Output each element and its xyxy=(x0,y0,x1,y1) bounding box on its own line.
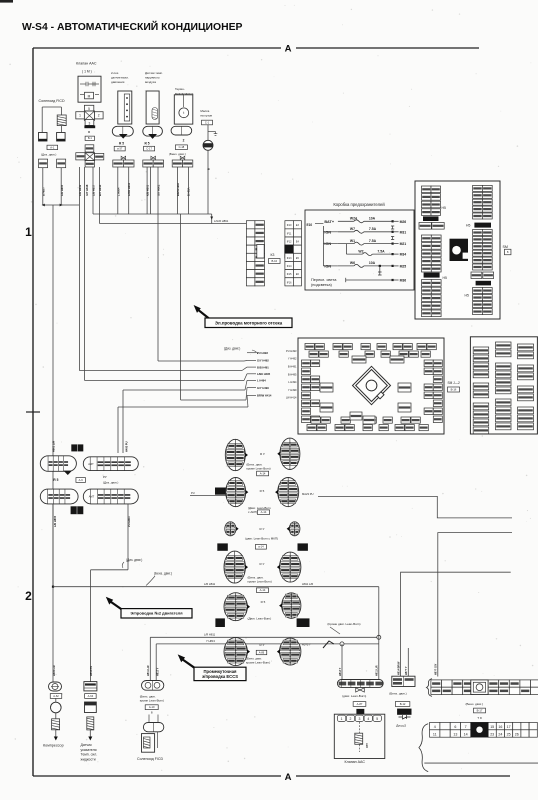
harness label engine no2 arrow xyxy=(106,597,113,605)
wire air temp down 1 xyxy=(146,167,148,214)
compressor clutch coil circle xyxy=(51,702,62,713)
wire air temp down 2 (long) xyxy=(157,167,159,361)
svg-text:R У: R У xyxy=(260,452,265,456)
connector ref A-14 row2 xyxy=(258,510,270,515)
connector cells FICD solenoid xyxy=(39,159,48,168)
svg-text:Н805 L/R: Н805 L/R xyxy=(53,665,56,676)
fuse light -> M36 xyxy=(346,279,393,281)
svg-text:Э/проводка №2 двигателя: Э/проводка №2 двигателя xyxy=(130,611,183,616)
wire H811 drop to AAC strip xyxy=(378,587,380,680)
coolant sensor connector xyxy=(84,682,97,691)
SM mounting hole xyxy=(450,239,469,261)
connector ref 8 (SM) xyxy=(504,249,511,255)
svg-text:Н493 PU: Н493 PU xyxy=(125,441,129,452)
wire vertical thermo short xyxy=(150,167,152,214)
svg-text:L/ВК Н495: L/ВК Н495 xyxy=(257,372,271,376)
svg-text:15: 15 xyxy=(490,725,494,729)
svg-text:С-18: С-18 xyxy=(179,145,185,149)
svg-text:(Диз. двиг.): (Диз. двиг.) xyxy=(103,480,118,484)
svg-text:Н5: Н5 xyxy=(442,206,446,210)
black ref labels below stadium 2 xyxy=(71,506,84,514)
svg-text:ОТУ: ОТУ xyxy=(366,743,369,748)
svg-text:IF16: IF16 xyxy=(287,281,292,284)
wire FICD drop 1 xyxy=(149,637,151,680)
wire jog PU to sensor xyxy=(91,569,128,571)
svg-text:G/Y Н492: G/Y Н492 xyxy=(257,359,269,363)
wire AAC pin1 down xyxy=(78,167,80,371)
svg-text:указателя: указателя xyxy=(81,748,97,752)
bottom right horizontal wire xyxy=(424,762,538,764)
pointer line for note xyxy=(330,627,340,634)
black ref box AAC xyxy=(356,709,364,714)
solenoid FICD left terminal box xyxy=(39,133,48,142)
svg-text:Коробка предохранителей: Коробка предохранителей xyxy=(333,202,385,207)
svg-text:1: 1 xyxy=(341,717,343,721)
connector ref B-12 xyxy=(395,702,410,707)
svg-text:Масса: Масса xyxy=(200,109,209,113)
SMJ-2 inner top cells xyxy=(352,356,366,363)
svg-text:В-17: В-17 xyxy=(477,708,483,712)
svg-text:В/В Н491: В/В Н491 xyxy=(257,365,269,369)
stadium connector row2 left xyxy=(40,489,78,504)
junction T at compressor wire xyxy=(52,586,54,588)
SMJ-2 inner cell LAV xyxy=(320,383,333,392)
connector ref A-1 xyxy=(47,145,58,149)
bus arrowhead down xyxy=(210,217,213,220)
cross connector 2 left cell xyxy=(76,153,85,160)
connector ref C-1 xyxy=(202,120,213,125)
SMJ-2 inner cell VOV xyxy=(398,383,411,392)
thermo switch body xyxy=(174,95,193,124)
diode component xyxy=(397,709,411,719)
svg-text:2-поз.: 2-поз. xyxy=(111,71,119,75)
wire horizontal run 6 xyxy=(118,406,248,408)
svg-text:SM: SM xyxy=(503,245,508,249)
svg-text:давления: давления xyxy=(111,80,125,84)
svg-text:(Диз. двиг.): (Диз. двиг.) xyxy=(224,347,240,351)
wire AAC pin4 down xyxy=(99,167,101,224)
black ref labels above stadium 1 xyxy=(71,444,83,451)
svg-text:Н811 L/R: Н811 L/R xyxy=(302,582,313,586)
bowtie symbol under AAC strip xyxy=(356,688,365,692)
svg-text:11: 11 xyxy=(433,733,437,737)
svg-text:(Бенз. двиг.): (Бенз. двиг.) xyxy=(154,572,172,576)
right block column B cells xyxy=(496,342,512,430)
SMJ-2 inner bottom cells xyxy=(350,412,362,420)
compressor resistor hatched xyxy=(52,719,60,730)
pressure switch cells xyxy=(113,160,124,167)
wire drop to AMT stadium B xyxy=(122,390,124,453)
svg-text:2: 2 xyxy=(25,589,32,603)
svg-text:2: 2 xyxy=(350,717,352,721)
SM right-bottom wide row xyxy=(471,272,482,279)
harness label ECCS arrow xyxy=(178,654,185,662)
valve AAC cross connector pin 5 xyxy=(84,105,93,111)
svg-text:Клапан ААС: Клапан ААС xyxy=(345,760,366,764)
wire horizontal run 1 (from air temp sensor) xyxy=(158,360,244,362)
bowtie mark xyxy=(180,156,185,159)
air temp sensor connector stadium xyxy=(143,126,163,136)
svg-text:э/проводка ECCS: э/проводка ECCS xyxy=(202,674,238,679)
svg-text:В-1б: В-1б xyxy=(451,387,457,391)
border tick at y=412 xyxy=(26,411,40,413)
SMJ-2 inner cell RAZ xyxy=(398,403,411,412)
triangle pin under stadium 1 xyxy=(64,471,73,475)
scan mark top-left xyxy=(0,0,13,3)
svg-text:24: 24 xyxy=(498,733,502,737)
compressor wire lower xyxy=(52,587,54,682)
svg-text:R 5: R 5 xyxy=(53,478,58,482)
round connector pair row1 right xyxy=(277,438,300,469)
svg-text:A: A xyxy=(285,44,292,55)
valve AAC cross connector pin 1 xyxy=(76,112,85,119)
svg-text:PU: PU xyxy=(191,491,195,495)
svg-text:жидкости: жидкости xyxy=(81,757,96,761)
check mark arrow xyxy=(323,641,334,648)
svg-text:наружного: наружного xyxy=(145,76,160,80)
connector ref B-10 xyxy=(269,259,281,264)
connector ref C-17 xyxy=(144,146,155,151)
connector ref A-9 xyxy=(76,478,86,483)
svg-text:L/R Н819: L/R Н819 xyxy=(78,184,82,196)
SMJ-2 right column cells xyxy=(424,360,442,423)
wire stadium left down (compressor net) xyxy=(52,504,54,587)
valve AAC internal coil xyxy=(355,733,363,744)
round connector pair row5 left xyxy=(224,593,250,621)
svg-text:3: 3 xyxy=(358,717,360,721)
fuse junction dot xyxy=(379,265,381,267)
svg-text:Клапан ААС: Клапан ААС xyxy=(76,62,97,66)
svg-text:А-87: А-87 xyxy=(357,702,363,706)
coolant sensor element hatched xyxy=(87,717,94,730)
svg-text:А-10: А-10 xyxy=(149,705,155,709)
connector ref A-64 xyxy=(85,694,97,699)
frame top line A (left segment) xyxy=(33,47,281,49)
svg-text:а-37: а-37 xyxy=(117,147,123,151)
svg-text:А-14: А-14 xyxy=(260,588,266,592)
connector ref A-14 row1 xyxy=(257,471,269,476)
svg-text:Н811 L/R: Н811 L/R xyxy=(147,665,150,676)
wire drop to AMT stadium A xyxy=(117,407,119,453)
svg-text:В Н495: В Н495 xyxy=(288,372,297,376)
svg-text:Эл.проводка моторного отсека: Эл.проводка моторного отсека xyxy=(215,320,283,325)
svg-text:Y Н499: Y Н499 xyxy=(288,388,297,392)
SM right-bottom black bar xyxy=(476,281,491,286)
svg-text:МА23 PU: МА23 PU xyxy=(302,492,314,496)
svg-text:Y Н492: Y Н492 xyxy=(288,357,297,361)
svg-text:(Двиг. Lean-Burn): (Двиг. Lean-Burn) xyxy=(248,616,272,620)
svg-text:К/В Н801: К/В Н801 xyxy=(146,184,150,196)
svg-text:В: В xyxy=(207,168,211,170)
solenoid FICD U bracket wire xyxy=(42,106,61,108)
svg-text:G/Y Н802: G/Y Н802 xyxy=(157,184,161,196)
svg-text:В-12: В-12 xyxy=(400,702,406,706)
wire net L G/R H891 to K3 xyxy=(100,223,247,225)
svg-text:G/Y Н818: G/Y Н818 xyxy=(85,184,89,196)
harness label intermediate ECCS xyxy=(194,667,246,680)
stadium connector row1 right (AMT) xyxy=(83,457,138,471)
wire labels left of SMJ-2 xyxy=(286,349,297,400)
wire FICD drop 2 xyxy=(155,644,157,681)
connector SMJ-2 main outline xyxy=(298,338,444,434)
pressure switch connector stadium xyxy=(112,126,133,136)
connector ref B-16 xyxy=(448,387,460,392)
svg-text:2: 2 xyxy=(98,114,100,118)
svg-text:L Н494: L Н494 xyxy=(257,379,266,383)
svg-text:IF12: IF12 xyxy=(287,241,292,244)
coolant sensor body upper xyxy=(85,702,97,713)
svg-text:Компрессор: Компрессор xyxy=(43,744,64,748)
svg-text:IF15: IF15 xyxy=(287,273,292,276)
svg-text:М25: М25 xyxy=(400,264,407,268)
svg-text:1: 1 xyxy=(25,225,32,239)
svg-text:А-86: А-86 xyxy=(259,650,265,654)
wire horizontal run 2 (from AAC pin1) xyxy=(79,370,242,372)
valve AAC internal contacts xyxy=(80,83,86,85)
svg-text:4: 4 xyxy=(367,717,369,721)
wire stadium right down PU H803 xyxy=(127,504,129,570)
svg-text:25: 25 xyxy=(507,733,511,737)
right block column C cells xyxy=(518,344,534,430)
svg-text:Датчик: Датчик xyxy=(81,743,93,747)
ground bolt circle xyxy=(203,140,213,150)
connector ref a-37 xyxy=(114,146,125,151)
brace for T8 strip xyxy=(427,679,433,697)
svg-text:а-14: а-14 xyxy=(258,545,264,549)
svg-text:Н816 PU: Н816 PU xyxy=(90,666,93,676)
svg-text:L/ОR Н806: L/ОR Н806 xyxy=(127,182,131,196)
svg-text:W6: W6 xyxy=(350,261,355,265)
svg-text:7.5А: 7.5А xyxy=(369,239,377,243)
valve AAC cross connector pin 3 xyxy=(85,120,94,126)
cross connector 2 bottom cell xyxy=(85,161,94,167)
pressure switch triangle pin xyxy=(119,134,128,139)
svg-text:IF11: IF11 xyxy=(287,232,292,235)
svg-text:датчик-выкл.: датчик-выкл. xyxy=(111,76,129,80)
svg-text:10А: 10А xyxy=(369,261,376,265)
svg-text:R 5: R 5 xyxy=(260,489,265,493)
wire AAC pin3 down xyxy=(92,167,94,214)
svg-text:Н8?? Y: Н8?? Y xyxy=(405,666,408,675)
valve AAC bottom box outline xyxy=(334,714,385,758)
svg-text:PU Н493: PU Н493 xyxy=(257,351,268,355)
svg-text:IF10: IF10 xyxy=(287,224,292,227)
svg-text:L/R Н811: L/R Н811 xyxy=(204,582,216,586)
svg-text:(Бенз. двиг.): (Бенз. двиг.) xyxy=(389,692,406,696)
connector ref a-14 row3 xyxy=(255,545,266,550)
svg-text:кроме Lean-Burn): кроме Lean-Burn) xyxy=(140,698,164,702)
coolant sensor arrow down xyxy=(89,730,91,737)
svg-text:BR/W Н414: BR/W Н414 xyxy=(257,394,272,398)
wire drop to fuse feed xyxy=(211,214,213,224)
svg-text:(Диз. двиг.): (Диз. двиг.) xyxy=(126,558,142,562)
svg-text:кроме Lean-Burn): кроме Lean-Burn) xyxy=(246,660,270,664)
round connector pair row5 right xyxy=(279,593,301,619)
wire step line 3 xyxy=(401,572,511,676)
SM right-mid cell group xyxy=(473,230,493,271)
wire FICD down-left xyxy=(42,168,44,205)
valve AAC body box xyxy=(78,76,101,102)
wire FICD down-right xyxy=(60,168,62,205)
SMJ-2 left column cells xyxy=(302,360,320,423)
svg-text:10А: 10А xyxy=(369,217,376,221)
svg-text:SM J—2: SM J—2 xyxy=(448,381,460,385)
svg-text:L/В Н817: L/В Н817 xyxy=(92,184,96,196)
svg-text:7: 7 xyxy=(465,725,467,729)
frame top line A (right segment) xyxy=(296,47,479,49)
FICD solenoid body xyxy=(142,734,155,753)
frame bottom line A (left segment) xyxy=(33,775,281,777)
wire G/Y drop to T8 strip xyxy=(437,659,439,677)
connector block SM outline xyxy=(415,181,500,319)
svg-text:М36: М36 xyxy=(400,279,407,283)
svg-text:Н5: Н5 xyxy=(466,224,470,228)
round connector pair row3 right (small) xyxy=(287,522,300,536)
wire thermo down 2 (long) xyxy=(187,167,189,214)
SM right-bottom cell group xyxy=(473,288,493,315)
round connector pair row1 left xyxy=(225,439,248,470)
svg-text:НЗ?5 Y: НЗ?5 Y xyxy=(302,642,311,646)
SMJ-2 inner cell AAT3 xyxy=(320,403,333,412)
svg-text:С-1: С-1 xyxy=(205,120,210,124)
svg-text:26: 26 xyxy=(515,733,519,737)
svg-text:ВАТ+: ВАТ+ xyxy=(324,220,334,224)
svg-text:t: t xyxy=(183,111,184,115)
brace for numbered strip xyxy=(419,724,428,772)
svg-text:с АКП): с АКП) xyxy=(248,510,257,514)
black labels row5 xyxy=(215,618,225,627)
T8 connector strip xyxy=(431,680,538,695)
svg-text:Н5: Н5 xyxy=(465,294,469,298)
valve AAC internal dashed axis xyxy=(359,722,361,752)
svg-text:А-1: А-1 xyxy=(50,145,55,149)
svg-text:2: 2 xyxy=(183,138,185,142)
wire ground down xyxy=(207,150,209,214)
svg-text:IGN: IGN xyxy=(324,242,331,246)
FICD oval connector xyxy=(143,723,163,732)
wire to diode strip 1 xyxy=(400,672,402,676)
wire net L/R H811 horizontal xyxy=(53,586,379,588)
wire bus y=214 xyxy=(93,213,212,215)
svg-text:М21: М21 xyxy=(400,242,407,246)
svg-text:(Диз. двиг.): (Диз. двиг.) xyxy=(41,153,56,157)
frame left border xyxy=(32,48,34,776)
svg-text:Соленоид FICD: Соленоид FICD xyxy=(137,757,163,761)
wire pressure switch down 2 xyxy=(128,167,130,214)
round connector pair row2 right xyxy=(275,478,299,507)
svg-text:1: 1 xyxy=(79,114,81,118)
svg-text:4: 4 xyxy=(434,725,436,729)
svg-text:С-17: С-17 xyxy=(146,147,152,151)
svg-text:К3: К3 xyxy=(271,253,275,257)
wire horizontal run 4 xyxy=(123,389,245,391)
svg-text:7.5А: 7.5А xyxy=(369,227,377,231)
compressor connector xyxy=(49,682,62,691)
SMJ-2 center diamond guide xyxy=(353,366,391,404)
harness label engine no2 xyxy=(121,609,192,618)
air temp sensor cells xyxy=(143,160,153,167)
wire step line 1 xyxy=(318,496,512,518)
svg-text:R У: R У xyxy=(260,562,265,566)
svg-text:R 5: R 5 xyxy=(261,600,266,604)
wire net Y H813 horizontal xyxy=(156,643,379,645)
svg-text:АМТ: АМТ xyxy=(88,462,94,466)
round connector pair row2 left xyxy=(226,478,249,507)
wire Y H813 drop to AAC strip xyxy=(341,644,343,680)
stadium connector row2 right xyxy=(83,489,138,504)
wire fan stub labels xyxy=(247,351,272,398)
svg-text:Диод,5: Диод,5 xyxy=(396,723,406,727)
wire bus y=205 joining FICD wires xyxy=(43,204,80,206)
svg-text:Н8?? G/Y: Н8?? G/Y xyxy=(434,663,437,675)
connector ref A-10 xyxy=(145,705,158,710)
svg-text:PU Н493: PU Н493 xyxy=(286,349,297,353)
svg-text:Y Н813: Y Н813 xyxy=(206,639,215,643)
wire to diode strip 2 xyxy=(407,648,409,676)
harness label engine bay xyxy=(205,318,292,328)
round connector pair row4 right xyxy=(277,552,301,582)
wire thermo down 1 xyxy=(177,167,179,214)
ground wire xyxy=(207,125,209,141)
svg-text:В-10: В-10 xyxy=(271,259,277,263)
cross connector 2 center xyxy=(85,153,94,161)
valve AAC cross connector pin 2 xyxy=(95,112,104,119)
round connector pair row4 left xyxy=(224,551,248,583)
svg-text:(Бенз. двиг.): (Бенз. двиг.) xyxy=(169,152,186,156)
svg-text:13: 13 xyxy=(453,733,457,737)
svg-text:В Н807: В Н807 xyxy=(41,187,45,196)
wire AAC pin2 down xyxy=(84,167,86,381)
wire stub PU near AMT xyxy=(190,494,226,496)
ground arrow jog xyxy=(208,131,216,133)
fuse box engine bay label arrow xyxy=(194,305,201,313)
svg-text:W7: W7 xyxy=(350,227,355,231)
SM right black bar xyxy=(474,223,491,228)
svg-text:3: 3 xyxy=(89,121,91,125)
diode connector strip xyxy=(392,676,415,686)
fuse box outline xyxy=(305,210,414,290)
SM right-top cell group xyxy=(473,185,493,219)
svg-text:L/R Н805: L/R Н805 xyxy=(53,515,57,527)
connector E cell column IF10-IF16 xyxy=(285,221,302,286)
svg-text:Н813 Y: Н813 Y xyxy=(157,667,160,676)
numbered connector strip xyxy=(430,722,538,737)
svg-text:М34: М34 xyxy=(400,253,407,257)
svg-text:на кузов: на кузов xyxy=(200,114,212,118)
svg-text:А-14: А-14 xyxy=(261,510,267,514)
air temp sensor triangle pin xyxy=(148,134,157,139)
svg-text:(Бенз. двиг.): (Бенз. двиг.) xyxy=(466,702,483,706)
SMJ-2 bottom rows xyxy=(307,417,428,431)
SM top-left cell group xyxy=(419,186,444,229)
FICD solenoid bottom connector xyxy=(142,681,164,691)
svg-text:W1: W1 xyxy=(350,239,355,243)
connector K3 cell column xyxy=(246,221,264,286)
svg-text:23: 23 xyxy=(490,733,494,737)
svg-text:LW Н414: LW Н414 xyxy=(286,396,297,400)
SMJ-2 perimeter cells top row xyxy=(305,344,436,358)
svg-text:16: 16 xyxy=(498,725,502,729)
wire step line 2 (down to diode area) xyxy=(438,533,512,677)
svg-text:А-62: А-62 xyxy=(53,694,59,698)
connector ref A-8 row6 xyxy=(256,650,267,654)
bowtie mark xyxy=(121,156,126,159)
svg-text:W2: W2 xyxy=(358,249,363,253)
svg-text:РУ: РУ xyxy=(103,475,107,479)
node circle on Y H813 xyxy=(340,642,344,646)
compressor arrow down xyxy=(55,730,57,737)
svg-text:Датчик темп.: Датчик темп. xyxy=(145,71,163,75)
